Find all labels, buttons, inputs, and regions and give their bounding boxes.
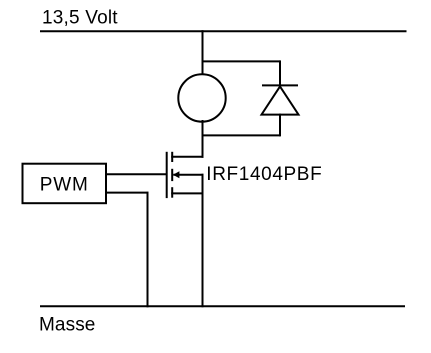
- wire: source lead down to ground rail: [202, 174, 204, 307]
- transistor Q1 IRF1404PBF (N-MOSFET): [167, 152, 204, 198]
- channel segment bottom: [171, 187, 173, 198]
- wire: diode branch bottom: [202, 134, 281, 136]
- wire: PWM ground vertical: [147, 192, 149, 307]
- wire: +13,5V supply rail (top): [40, 30, 407, 32]
- svg-text:PWM: PWM: [40, 175, 89, 196]
- wire: motor bottom to MOSFET drain: [202, 120, 204, 158]
- PWM source U1 (box): [23, 164, 107, 204]
- source stub: [171, 192, 203, 194]
- drain stub: [171, 156, 203, 158]
- wire: diode branch top: [202, 60, 281, 62]
- gate line: [166, 152, 168, 198]
- wire: PWM ground horizontal: [106, 192, 149, 194]
- motor M1 (load): [178, 74, 225, 121]
- body line: [173, 174, 203, 176]
- channel segment top: [171, 152, 173, 162]
- wire: ground rail Masse (bottom): [40, 305, 405, 307]
- wire: diode anode lead: [279, 114, 281, 137]
- svg-text:Masse: Masse: [39, 314, 95, 335]
- wire: drain lead vertical: [202, 134, 204, 157]
- wire: PWM output to gate: [106, 173, 167, 175]
- diode D1 (freewheeling): [262, 85, 299, 114]
- svg-text:13,5 Volt: 13,5 Volt: [42, 7, 118, 28]
- svg-text:IRF1404PBF: IRF1404PBF: [206, 164, 322, 185]
- body arrow: [173, 171, 180, 178]
- wire: diode cathode lead: [279, 60, 281, 86]
- channel segment middle: [171, 169, 173, 181]
- wire: rail to motor top: [202, 30, 204, 76]
